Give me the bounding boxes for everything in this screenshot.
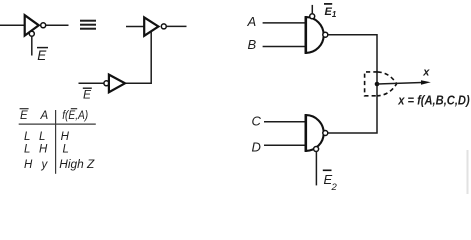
truth table row 3: [24, 159, 95, 171]
truth table header f(E-bar,A): [62, 109, 88, 122]
wire input A: [263, 22, 306, 24]
wire arrow to x: [377, 83, 422, 85]
wire output G1 to node: [328, 35, 377, 84]
wire input of buffer U3: [79, 82, 105, 84]
arrowhead: [421, 80, 431, 85]
bubble output U1: [41, 23, 46, 28]
svg-text:A: A: [40, 110, 49, 122]
label E1-bar: [324, 4, 337, 19]
buffer U3 triangle: [109, 75, 125, 93]
svg-text:E: E: [83, 87, 92, 101]
wire input D: [264, 144, 306, 146]
wire from buffer U3 output up to U2 enable: [125, 32, 151, 84]
truth table header underline: [19, 123, 96, 125]
scan artifact right edge: [467, 150, 469, 194]
svg-text:H: H: [24, 159, 33, 171]
wire input B: [263, 46, 306, 48]
bubble enable U1: [29, 31, 34, 36]
wire enable G2: [315, 152, 317, 186]
truth table column divider: [55, 110, 57, 174]
NAND gate G1 left edge: [304, 16, 307, 54]
svg-text:2: 2: [331, 182, 338, 193]
inverter U2 triangle: [144, 17, 158, 35]
svg-text:E: E: [37, 48, 47, 63]
wire input of inverter U2: [126, 26, 145, 28]
svg-text:1: 1: [332, 10, 337, 19]
equivalence symbol: [80, 21, 96, 29]
inverter U1 triangle: [25, 15, 39, 35]
svg-text:C: C: [252, 113, 262, 128]
svg-text:B: B: [248, 37, 257, 52]
bubble output G2: [323, 131, 328, 136]
svg-text:H: H: [61, 131, 70, 143]
truth table row 1: [24, 131, 70, 143]
bubble enable G1: [310, 14, 315, 19]
svg-text:x = f(A,B,C,D): x = f(A,B,C,D): [397, 92, 469, 107]
wire output of U1: [46, 24, 69, 26]
svg-text:y: y: [41, 159, 49, 171]
label E2-bar: [323, 170, 338, 193]
label E-bar of U1: [37, 48, 48, 63]
wire output of U2: [166, 25, 186, 27]
NAND gate G1 body: [306, 17, 324, 53]
wire input C: [264, 121, 306, 123]
svg-text:H: H: [39, 143, 48, 155]
svg-text:L: L: [63, 143, 69, 155]
svg-text:L: L: [39, 131, 45, 143]
svg-text:A: A: [247, 14, 257, 29]
dashed phantom wired gate: [365, 72, 397, 96]
wire output G2 to node: [328, 84, 377, 133]
node x junction dot: [375, 82, 380, 87]
svg-text:L: L: [24, 143, 30, 155]
svg-text:f(E,A): f(E,A): [62, 110, 88, 122]
label E-bar of U3: [83, 87, 92, 101]
NAND gate G2 body: [306, 115, 324, 151]
bubble enable G2: [314, 147, 319, 152]
wire enable of U1: [31, 36, 33, 55]
wire input of tri-state inverter U1: [0, 24, 25, 26]
NAND gate G2 left edge: [304, 114, 307, 152]
wire enable G1: [311, 5, 313, 13]
truth table row 2: [24, 143, 69, 155]
bubble output U2: [161, 24, 166, 29]
svg-text:L: L: [24, 131, 30, 143]
bubble output G1: [323, 32, 328, 37]
svg-text:High Z: High Z: [59, 159, 95, 171]
bubble input U3: [104, 81, 109, 86]
svg-text:D: D: [252, 140, 261, 155]
svg-text:x: x: [422, 66, 430, 78]
truth table header E-bar: [20, 109, 29, 122]
svg-text:E: E: [20, 110, 28, 122]
